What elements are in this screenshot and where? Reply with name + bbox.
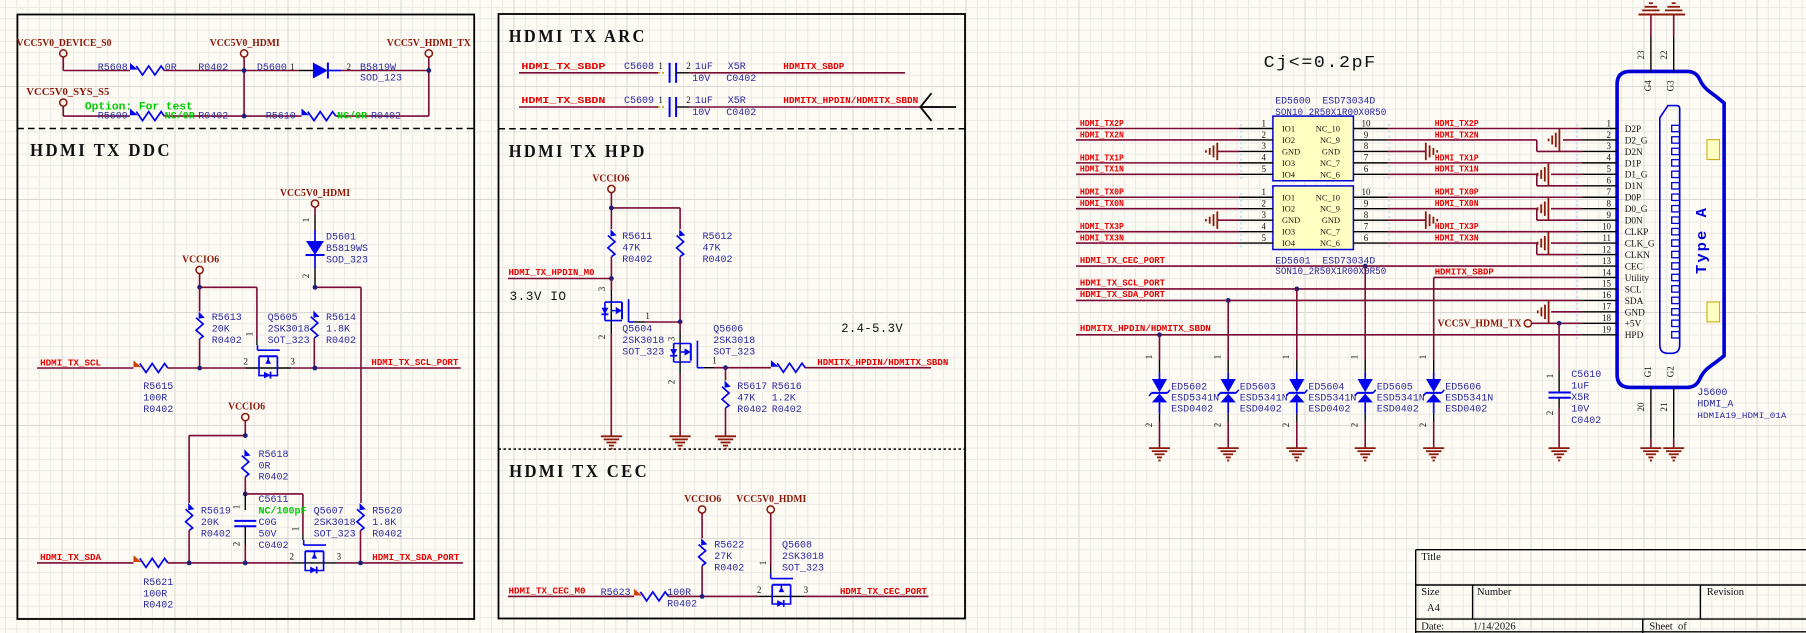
svg-text:HDMITX_HPDIN/HDMITX_SBDN: HDMITX_HPDIN/HDMITX_SBDN: [817, 357, 948, 368]
svg-text:+5V: +5V: [1625, 320, 1642, 330]
svg-text:Q5605: Q5605: [268, 313, 298, 324]
svg-text:C5608: C5608: [624, 62, 654, 73]
svg-text:3: 3: [1262, 141, 1267, 151]
svg-text:R0402: R0402: [714, 563, 744, 574]
svg-text:1uF: 1uF: [695, 96, 713, 107]
svg-text:D2N: D2N: [1625, 148, 1643, 158]
svg-text:HDMI_TX0N: HDMI_TX0N: [1435, 198, 1479, 209]
svg-text:D0P: D0P: [1625, 194, 1642, 204]
svg-text:VCC5V0_HDMI: VCC5V0_HDMI: [210, 38, 280, 49]
svg-text:ESD5341N: ESD5341N: [1240, 393, 1288, 404]
svg-text:1: 1: [1350, 355, 1360, 360]
svg-text:R5608: R5608: [98, 63, 128, 74]
svg-text:D2P: D2P: [1625, 125, 1642, 135]
svg-text:Revision: Revision: [1707, 587, 1745, 598]
svg-text:HDMI_TX2N: HDMI_TX2N: [1435, 129, 1479, 140]
svg-text:GND: GND: [1322, 147, 1340, 156]
svg-text:6: 6: [1364, 164, 1369, 174]
svg-text:HPD: HPD: [1625, 331, 1644, 341]
svg-text:R5616: R5616: [772, 382, 802, 393]
svg-text:HDMI TX DDC: HDMI TX DDC: [30, 140, 172, 160]
svg-text:HDMI_TX_CEC_PORT: HDMI_TX_CEC_PORT: [1080, 255, 1165, 266]
svg-text:R0402: R0402: [737, 405, 767, 416]
svg-text:HDMI_TX_CEC_M0: HDMI_TX_CEC_M0: [509, 586, 586, 597]
svg-text:D2_G: D2_G: [1625, 136, 1648, 146]
svg-text:0R: 0R: [259, 461, 271, 472]
svg-text:SOD_123: SOD_123: [360, 74, 402, 85]
svg-text:HDMITX_SBDP: HDMITX_SBDP: [1435, 266, 1494, 277]
svg-text:100R: 100R: [143, 394, 167, 405]
svg-text:ESD5341N: ESD5341N: [1171, 393, 1219, 404]
svg-text:Utility: Utility: [1625, 274, 1650, 284]
svg-text:10V: 10V: [1571, 404, 1589, 415]
svg-text:D0_G: D0_G: [1625, 205, 1648, 215]
svg-text:1.8K: 1.8K: [326, 325, 350, 336]
svg-text:Size: Size: [1421, 587, 1439, 598]
svg-text:HDMITX_HPDIN/HDMITX_SBDN: HDMITX_HPDIN/HDMITX_SBDN: [1080, 323, 1211, 334]
svg-text:NC_9: NC_9: [1320, 136, 1340, 145]
svg-text:1: 1: [645, 311, 650, 321]
svg-text:IO1: IO1: [1282, 125, 1295, 134]
svg-text:R5620: R5620: [372, 507, 402, 518]
svg-text:C0402: C0402: [726, 74, 756, 85]
svg-text:R5609: R5609: [98, 111, 128, 122]
svg-text:SOT_323: SOT_323: [713, 347, 755, 358]
svg-text:100R: 100R: [667, 588, 691, 599]
svg-text:NC/0R: NC/0R: [165, 110, 195, 122]
svg-text:2: 2: [1281, 423, 1291, 428]
svg-text:X5R: X5R: [728, 96, 746, 107]
svg-text:R0402: R0402: [212, 336, 242, 347]
svg-text:1: 1: [1213, 355, 1223, 360]
svg-text:1uF: 1uF: [695, 62, 713, 73]
svg-text:IO1: IO1: [1282, 193, 1295, 202]
svg-text:C0402: C0402: [259, 541, 289, 552]
svg-text:SOT_323: SOT_323: [782, 563, 824, 574]
svg-text:VCC5V0_DEVICE_S0: VCC5V0_DEVICE_S0: [17, 38, 112, 49]
svg-text:4: 4: [1262, 221, 1267, 231]
svg-text:HDMI_TX0P: HDMI_TX0P: [1435, 187, 1479, 198]
svg-text:2SK3018: 2SK3018: [782, 552, 824, 563]
svg-text:2: 2: [1607, 130, 1612, 140]
svg-text:HDMI_TX_SDA_PORT: HDMI_TX_SDA_PORT: [1080, 289, 1165, 300]
svg-text:1/14/2026: 1/14/2026: [1473, 622, 1516, 633]
svg-text:1.2K: 1.2K: [772, 394, 796, 405]
svg-text:8: 8: [1364, 210, 1369, 220]
svg-text:1.8K: 1.8K: [372, 518, 396, 529]
svg-text:7: 7: [1364, 153, 1369, 163]
svg-text:SOD_323: SOD_323: [326, 255, 368, 266]
svg-text:R0402: R0402: [667, 599, 697, 610]
svg-text:HDMI_TX3N: HDMI_TX3N: [1080, 233, 1124, 244]
svg-text:2: 2: [301, 274, 311, 279]
svg-text:HDMI_TX_SDA_PORT: HDMI_TX_SDA_PORT: [372, 552, 459, 563]
svg-text:1: 1: [232, 505, 242, 510]
svg-text:D5601: D5601: [326, 232, 356, 243]
svg-text:1: 1: [1262, 118, 1267, 128]
svg-text:R0402: R0402: [371, 111, 401, 122]
svg-text:G3: G3: [1666, 80, 1676, 91]
svg-text:47K: 47K: [703, 243, 721, 254]
svg-text:3: 3: [290, 357, 295, 367]
svg-text:3: 3: [337, 552, 342, 562]
svg-text:HDMI_TX1N: HDMI_TX1N: [1435, 164, 1479, 175]
svg-text:VCC5V_HDMI_TX: VCC5V_HDMI_TX: [1438, 319, 1523, 330]
svg-text:ESD0402: ESD0402: [1445, 405, 1487, 416]
svg-text:VCC5V0_HDMI: VCC5V0_HDMI: [280, 188, 350, 199]
svg-text:R5619: R5619: [201, 507, 231, 518]
svg-text:8: 8: [1607, 199, 1612, 209]
svg-text:2: 2: [757, 585, 762, 595]
svg-text:ESD0402: ESD0402: [1377, 405, 1419, 416]
svg-text:SOT_323: SOT_323: [314, 530, 356, 541]
svg-text:R0402: R0402: [622, 255, 652, 266]
svg-text:R5623: R5623: [601, 588, 631, 599]
svg-text:HDMI_A: HDMI_A: [1697, 400, 1733, 411]
svg-text:ED5600 ESD73034D: ED5600 ESD73034D: [1275, 96, 1375, 107]
svg-text:C5610: C5610: [1571, 370, 1601, 381]
svg-text:0R: 0R: [165, 63, 177, 74]
svg-text:100R: 100R: [143, 589, 167, 600]
svg-text:2: 2: [1262, 199, 1267, 209]
svg-text:B5819W: B5819W: [360, 63, 396, 74]
svg-text:10V: 10V: [692, 74, 710, 85]
svg-text:2: 2: [1144, 423, 1154, 428]
svg-text:17: 17: [1602, 302, 1612, 312]
svg-text:2: 2: [597, 335, 607, 340]
svg-text:2.4-5.3V: 2.4-5.3V: [841, 321, 903, 336]
svg-text:R5614: R5614: [326, 313, 356, 324]
svg-text:GND: GND: [1282, 216, 1300, 225]
svg-text:VCCIO6: VCCIO6: [684, 494, 721, 505]
svg-text:HDMI_TX2P: HDMI_TX2P: [1080, 118, 1124, 129]
svg-text:1: 1: [244, 332, 254, 337]
svg-text:ESD5341N: ESD5341N: [1377, 393, 1425, 404]
svg-text:C0402: C0402: [726, 108, 756, 119]
svg-text:Sheet of: Sheet of: [1649, 622, 1687, 633]
svg-text:D1P: D1P: [1625, 159, 1642, 169]
svg-text:20K: 20K: [201, 518, 219, 529]
svg-text:ED5606: ED5606: [1445, 382, 1481, 393]
svg-text:CLKP: CLKP: [1625, 228, 1649, 238]
svg-text:HDMI_TX_SCL: HDMI_TX_SCL: [40, 357, 101, 368]
svg-text:1: 1: [1281, 355, 1291, 360]
svg-text:Date:: Date:: [1421, 622, 1444, 633]
svg-text:R0402: R0402: [703, 255, 733, 266]
svg-text:1: 1: [1607, 118, 1612, 128]
svg-text:NC_10: NC_10: [1316, 193, 1340, 202]
svg-text:IO2: IO2: [1282, 136, 1295, 145]
svg-text:1: 1: [658, 95, 663, 105]
svg-text:20: 20: [1636, 402, 1646, 412]
svg-text:D0N: D0N: [1625, 217, 1643, 227]
svg-text:Cj<=0.2pF: Cj<=0.2pF: [1264, 54, 1377, 73]
svg-text:R0402: R0402: [772, 405, 802, 416]
svg-text:47K: 47K: [622, 243, 640, 254]
svg-text:3: 3: [1262, 210, 1267, 220]
svg-text:R5615: R5615: [143, 382, 173, 393]
svg-text:SCL: SCL: [1625, 285, 1642, 295]
svg-text:18: 18: [1602, 313, 1612, 323]
svg-text:HDMI_TX_SBDN: HDMI_TX_SBDN: [521, 95, 605, 106]
svg-text:J5600: J5600: [1697, 388, 1727, 399]
svg-text:HDMI TX ARC: HDMI TX ARC: [509, 26, 647, 46]
svg-text:1: 1: [1144, 355, 1154, 360]
svg-text:ESD0402: ESD0402: [1308, 405, 1350, 416]
svg-text:ED5603: ED5603: [1240, 382, 1276, 393]
svg-text:5: 5: [1262, 164, 1267, 174]
svg-text:IO3: IO3: [1282, 228, 1295, 237]
svg-text:47K: 47K: [737, 394, 755, 405]
svg-text:2: 2: [686, 95, 691, 105]
svg-text:GND: GND: [1625, 308, 1645, 318]
svg-text:VCC5V_HDMI_TX: VCC5V_HDMI_TX: [387, 38, 472, 49]
svg-text:R5622: R5622: [714, 540, 744, 551]
svg-text:Type A: Type A: [1694, 206, 1711, 274]
svg-text:VCC5V0_HDMI: VCC5V0_HDMI: [736, 494, 806, 505]
svg-text:2: 2: [1418, 423, 1428, 428]
svg-text:IO4: IO4: [1282, 239, 1296, 248]
svg-text:R0402: R0402: [198, 63, 228, 74]
svg-text:Title: Title: [1421, 552, 1441, 563]
svg-text:7: 7: [1364, 221, 1369, 231]
svg-text:ESD0402: ESD0402: [1171, 405, 1213, 416]
svg-text:HDMI_TX3N: HDMI_TX3N: [1435, 233, 1479, 244]
svg-text:50V: 50V: [259, 530, 277, 541]
svg-text:X5R: X5R: [1571, 393, 1589, 404]
svg-text:NC_7: NC_7: [1320, 159, 1340, 168]
svg-text:R0402: R0402: [143, 601, 173, 612]
svg-text:SDA: SDA: [1625, 297, 1644, 307]
svg-text:20K: 20K: [212, 325, 230, 336]
svg-text:1: 1: [1418, 355, 1428, 360]
svg-text:22: 22: [1659, 51, 1669, 60]
svg-text:4: 4: [1607, 153, 1612, 163]
svg-text:R5618: R5618: [259, 450, 289, 461]
svg-text:HDMI_TX3P: HDMI_TX3P: [1435, 221, 1479, 232]
svg-text:15: 15: [1602, 279, 1612, 289]
svg-text:C5609: C5609: [624, 96, 654, 107]
svg-text:7: 7: [1607, 187, 1612, 197]
svg-text:B5819WS: B5819WS: [326, 244, 368, 255]
svg-text:HDMI_TX1P: HDMI_TX1P: [1080, 152, 1124, 163]
svg-text:2: 2: [347, 62, 352, 72]
svg-text:2SK3018: 2SK3018: [622, 336, 664, 347]
svg-text:10: 10: [1602, 221, 1612, 231]
svg-text:3.3V IO: 3.3V IO: [510, 289, 567, 304]
svg-text:3: 3: [1607, 141, 1612, 151]
svg-text:2SK3018: 2SK3018: [713, 336, 755, 347]
svg-text:1: 1: [290, 62, 295, 72]
svg-text:2: 2: [290, 552, 295, 562]
svg-text:ED5605: ED5605: [1377, 382, 1413, 393]
svg-text:ESD5341N: ESD5341N: [1308, 393, 1356, 404]
svg-text:HDMI_TX_CEC_PORT: HDMI_TX_CEC_PORT: [840, 586, 927, 597]
svg-text:VCC5V0_SYS_S5: VCC5V0_SYS_S5: [26, 87, 109, 98]
svg-text:HDMI_TX1P: HDMI_TX1P: [1435, 152, 1479, 163]
svg-text:ED5604: ED5604: [1308, 382, 1344, 393]
svg-text:3: 3: [666, 336, 676, 341]
svg-text:NC/100pF: NC/100pF: [259, 506, 307, 518]
svg-text:2: 2: [1262, 130, 1267, 140]
svg-text:Number: Number: [1477, 587, 1512, 598]
svg-text:HDMI_TX_HPDIN_M0: HDMI_TX_HPDIN_M0: [509, 267, 595, 278]
svg-text:NC/0R: NC/0R: [337, 110, 367, 122]
svg-text:ESD0402: ESD0402: [1240, 405, 1282, 416]
svg-text:A4: A4: [1427, 603, 1441, 614]
svg-text:1: 1: [301, 218, 311, 223]
svg-text:2: 2: [1545, 411, 1555, 416]
svg-text:10: 10: [1362, 118, 1372, 128]
svg-text:CEC: CEC: [1625, 262, 1643, 272]
svg-text:ESD5341N: ESD5341N: [1445, 393, 1493, 404]
svg-text:27K: 27K: [714, 552, 732, 563]
svg-text:R5610: R5610: [266, 111, 296, 122]
svg-text:HDMI_TX3P: HDMI_TX3P: [1080, 221, 1124, 232]
svg-text:D1N: D1N: [1625, 182, 1643, 192]
svg-text:12: 12: [1602, 244, 1611, 254]
svg-text:IO2: IO2: [1282, 205, 1295, 214]
svg-text:2: 2: [666, 380, 676, 385]
svg-text:23: 23: [1636, 50, 1646, 60]
svg-text:HDMI_TX0N: HDMI_TX0N: [1080, 198, 1124, 209]
svg-text:R5611: R5611: [622, 232, 652, 243]
svg-text:Q5608: Q5608: [782, 540, 812, 551]
svg-text:HDMITX_SBDP: HDMITX_SBDP: [783, 61, 844, 72]
svg-text:C5611: C5611: [259, 495, 289, 506]
svg-text:HDMITX_HPDIN/HDMITX_SBDN: HDMITX_HPDIN/HDMITX_SBDN: [783, 95, 918, 106]
svg-text:16: 16: [1602, 290, 1612, 300]
svg-text:GND: GND: [1282, 147, 1300, 156]
svg-text:NC_6: NC_6: [1320, 239, 1340, 248]
svg-text:6: 6: [1364, 233, 1369, 243]
svg-text:2: 2: [232, 542, 242, 547]
svg-text:R0402: R0402: [372, 530, 402, 541]
svg-text:NC_6: NC_6: [1320, 170, 1340, 179]
svg-text:G4: G4: [1643, 80, 1653, 91]
svg-text:R0402: R0402: [198, 111, 228, 122]
svg-text:1uF: 1uF: [1571, 381, 1589, 392]
svg-text:VCCIO6: VCCIO6: [592, 174, 629, 185]
svg-text:5: 5: [1262, 233, 1267, 243]
svg-text:1: 1: [290, 527, 300, 532]
svg-text:C0G: C0G: [259, 518, 277, 529]
svg-text:NC_9: NC_9: [1320, 205, 1340, 214]
svg-text:HDMIA19_HDMI_01A: HDMIA19_HDMI_01A: [1697, 412, 1786, 421]
svg-text:NC_7: NC_7: [1320, 228, 1340, 237]
svg-text:R5621: R5621: [143, 578, 173, 589]
svg-text:VCCIO6: VCCIO6: [182, 255, 219, 266]
svg-text:HDMI TX HPD: HDMI TX HPD: [509, 141, 647, 161]
svg-text:2: 2: [1213, 423, 1223, 428]
svg-text:13: 13: [1602, 256, 1612, 266]
svg-text:2: 2: [686, 61, 691, 71]
svg-text:R0402: R0402: [143, 405, 173, 416]
svg-text:11: 11: [1602, 233, 1611, 243]
svg-text:5: 5: [1607, 164, 1612, 174]
svg-text:6: 6: [1607, 176, 1612, 186]
svg-text:X5R: X5R: [728, 62, 746, 73]
svg-text:2SK3018: 2SK3018: [314, 518, 356, 529]
svg-text:2: 2: [1350, 423, 1360, 428]
svg-text:CLKN: CLKN: [1625, 251, 1651, 261]
svg-text:HDMI_TX2N: HDMI_TX2N: [1080, 129, 1124, 140]
svg-text:R0402: R0402: [201, 530, 231, 541]
svg-text:2SK3018: 2SK3018: [268, 325, 310, 336]
svg-text:D1_G: D1_G: [1625, 171, 1648, 181]
svg-text:1: 1: [658, 61, 663, 71]
svg-text:1: 1: [758, 561, 768, 566]
svg-text:HDMI_TX_SBDP: HDMI_TX_SBDP: [521, 61, 605, 72]
svg-text:1: 1: [712, 356, 717, 366]
svg-text:SOT_323: SOT_323: [268, 336, 310, 347]
svg-text:8: 8: [1364, 141, 1369, 151]
svg-text:HDMI_TX1N: HDMI_TX1N: [1080, 164, 1124, 175]
svg-text:4: 4: [1262, 153, 1267, 163]
svg-text:21: 21: [1659, 403, 1669, 412]
svg-text:R5617: R5617: [737, 382, 767, 393]
svg-text:CLK_G: CLK_G: [1625, 240, 1655, 250]
svg-text:Q5606: Q5606: [713, 324, 743, 335]
svg-text:HDMI_TX2P: HDMI_TX2P: [1435, 118, 1479, 129]
svg-text:1: 1: [1545, 374, 1555, 379]
svg-text:3: 3: [804, 585, 809, 595]
svg-text:IO4: IO4: [1282, 170, 1296, 179]
svg-text:R0402: R0402: [259, 473, 289, 484]
svg-text:19: 19: [1602, 325, 1612, 335]
svg-text:G1: G1: [1643, 366, 1653, 377]
svg-text:1: 1: [1262, 187, 1267, 197]
svg-text:HDMI_TX_SCL_PORT: HDMI_TX_SCL_PORT: [1080, 277, 1165, 288]
svg-text:3: 3: [597, 286, 607, 291]
svg-text:9: 9: [1607, 210, 1612, 220]
svg-text:D5600: D5600: [257, 63, 287, 74]
svg-text:IO3: IO3: [1282, 159, 1295, 168]
svg-text:SON10_2R50X1R00X0R50: SON10_2R50X1R00X0R50: [1275, 267, 1386, 278]
svg-text:9: 9: [1364, 130, 1369, 140]
svg-text:HDMI_TX_SDA: HDMI_TX_SDA: [40, 552, 101, 563]
svg-text:R5613: R5613: [212, 313, 242, 324]
svg-text:HDMI TX CEC: HDMI TX CEC: [509, 461, 649, 481]
svg-text:GND: GND: [1322, 216, 1340, 225]
svg-text:HDMI_TX_SCL_PORT: HDMI_TX_SCL_PORT: [371, 357, 458, 368]
svg-text:C0402: C0402: [1571, 416, 1601, 427]
svg-text:NC_10: NC_10: [1316, 125, 1340, 134]
svg-text:ED5602: ED5602: [1171, 382, 1207, 393]
svg-text:9: 9: [1364, 199, 1369, 209]
svg-text:R5612: R5612: [703, 232, 733, 243]
svg-text:VCCIO6: VCCIO6: [228, 402, 265, 413]
svg-text:R0402: R0402: [326, 336, 356, 347]
svg-text:HDMI_TX0P: HDMI_TX0P: [1080, 187, 1124, 198]
svg-text:Q5604: Q5604: [622, 324, 652, 335]
svg-text:10: 10: [1362, 187, 1372, 197]
svg-text:Q5607: Q5607: [314, 507, 344, 518]
svg-text:G2: G2: [1666, 366, 1676, 377]
svg-text:14: 14: [1602, 267, 1612, 277]
svg-text:10V: 10V: [692, 108, 710, 119]
svg-text:SOT_323: SOT_323: [622, 347, 664, 358]
svg-text:2: 2: [244, 357, 249, 367]
